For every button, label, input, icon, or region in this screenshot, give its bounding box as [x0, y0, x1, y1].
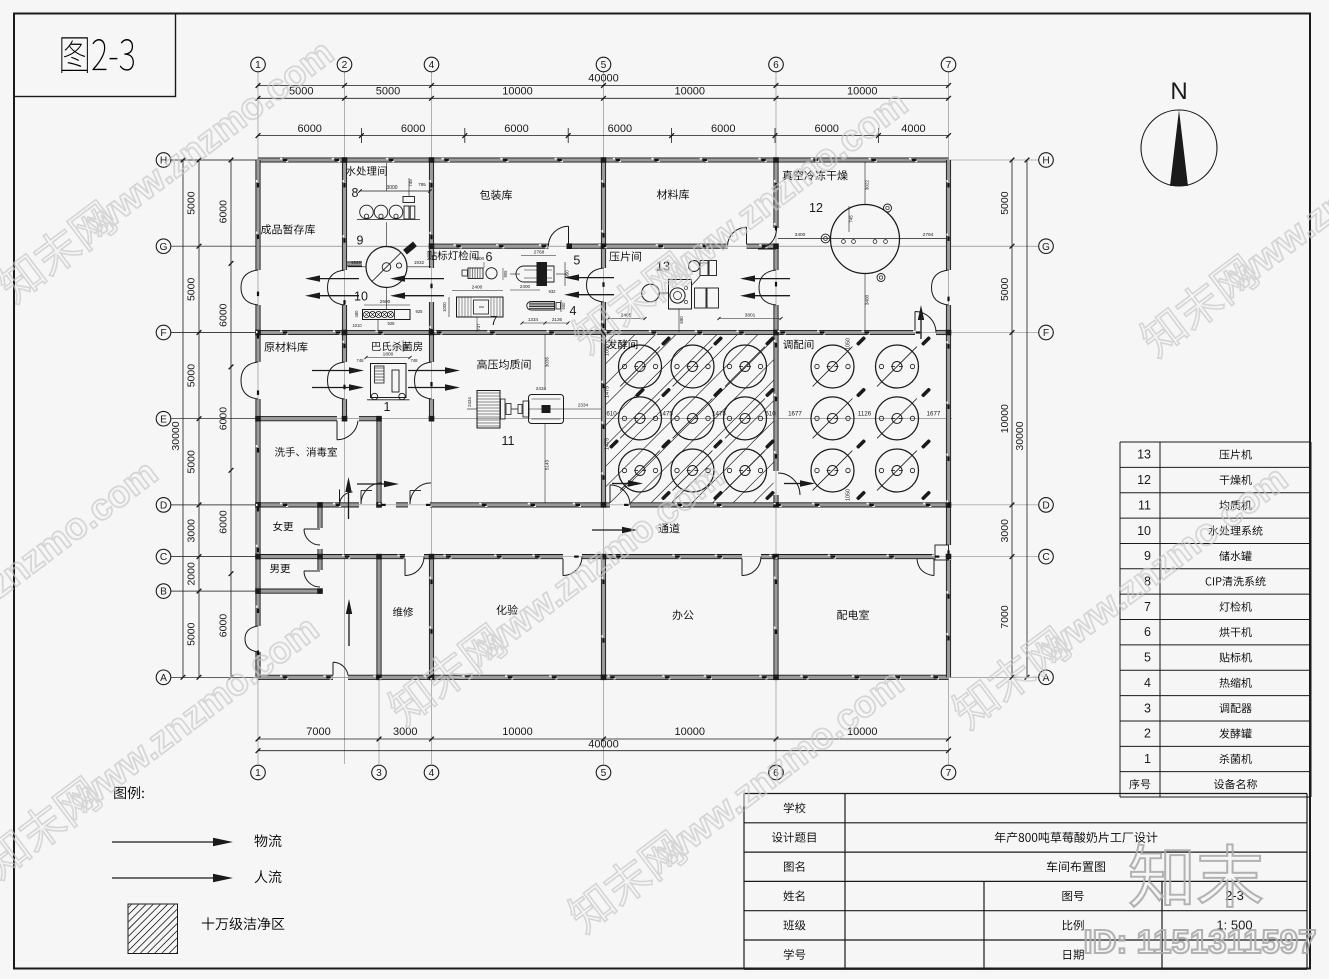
wall axis 6 vertical [774, 160, 778, 228]
svg-text:11: 11 [1138, 498, 1151, 512]
svg-text:2794: 2794 [923, 232, 934, 238]
room labels [261, 224, 271, 234]
svg-text:5000: 5000 [186, 278, 198, 302]
wall axis 6 vertical lower (办公/配电室) [774, 557, 778, 678]
svg-text:1: 1 [255, 60, 261, 71]
svg-text:6000: 6000 [401, 123, 425, 135]
svg-text:3400: 3400 [795, 232, 806, 238]
svg-text:1000: 1000 [442, 302, 447, 312]
right axis letter circles [1039, 153, 1054, 168]
svg-text:795: 795 [418, 182, 426, 187]
wall axis C (corridor bottom) [320, 555, 405, 559]
svg-text:2334: 2334 [578, 403, 589, 408]
svg-text:7: 7 [946, 60, 952, 71]
svg-text:5000: 5000 [999, 191, 1011, 215]
svg-text:6000: 6000 [711, 123, 735, 135]
svg-text:H: H [1042, 156, 1049, 167]
svg-text:4: 4 [1144, 676, 1151, 690]
svg-text:12: 12 [809, 201, 823, 215]
svg-text:737: 737 [476, 323, 481, 331]
svg-text:2: 2 [1144, 727, 1151, 741]
svg-text:1126: 1126 [858, 410, 872, 417]
svg-text:5143: 5143 [545, 459, 550, 470]
svg-text:3: 3 [376, 768, 382, 779]
svg-text:F: F [1043, 328, 1049, 339]
svg-text:30000: 30000 [170, 421, 182, 450]
svg-text:6000: 6000 [218, 614, 230, 638]
svg-text:6: 6 [1144, 625, 1151, 639]
svg-text:D: D [160, 501, 167, 512]
svg-text:5000: 5000 [999, 278, 1011, 302]
svg-text:1475: 1475 [605, 386, 611, 398]
left axis letter circles [156, 153, 171, 168]
wall 女更 right (x=320) [318, 505, 322, 528]
svg-text:748: 748 [411, 358, 419, 363]
知末 logo watermark [1130, 844, 1262, 907]
wall axis B (男更 bottom) [258, 589, 320, 593]
svg-text:6000: 6000 [218, 200, 230, 224]
wall junction blocks [342, 157, 348, 163]
left dimension lines [182, 160, 184, 677]
wall axis D (corridor top) [258, 503, 359, 507]
svg-text:C: C [1042, 552, 1049, 563]
svg-text:3000: 3000 [386, 185, 397, 191]
svg-text:1475: 1475 [659, 410, 673, 417]
svg-text:3: 3 [1144, 701, 1151, 715]
flow arrows [320, 278, 359, 280]
svg-text:12: 12 [1137, 473, 1151, 487]
svg-text:1677: 1677 [788, 410, 802, 417]
svg-text:932: 932 [549, 289, 557, 294]
svg-text:6000: 6000 [504, 123, 528, 135]
svg-text:4000: 4000 [901, 123, 925, 135]
svg-text:1050: 1050 [846, 489, 852, 501]
svg-text:7000: 7000 [999, 605, 1011, 629]
wall axis 2 vertical [342, 160, 346, 270]
svg-text:600: 600 [561, 302, 566, 310]
svg-text:4: 4 [429, 768, 435, 779]
top dimension lines [258, 85, 949, 87]
svg-text:4: 4 [429, 60, 435, 71]
svg-text:2400: 2400 [520, 284, 531, 289]
svg-text:748: 748 [357, 358, 365, 363]
svg-text:1475: 1475 [605, 438, 611, 450]
svg-text:10000: 10000 [674, 726, 705, 738]
svg-text:E: E [160, 414, 167, 425]
svg-text:G: G [1042, 242, 1050, 253]
svg-text:40000: 40000 [588, 73, 619, 85]
svg-text:F: F [160, 328, 166, 339]
svg-text:1932: 1932 [414, 260, 425, 265]
svg-text:3000: 3000 [999, 519, 1011, 543]
svg-text:A: A [160, 673, 167, 684]
svg-text:N: N [1170, 78, 1187, 105]
svg-text:950: 950 [565, 270, 570, 278]
svg-text:1334: 1334 [528, 317, 539, 322]
svg-text:5000: 5000 [186, 191, 198, 215]
svg-text:6000: 6000 [297, 123, 321, 135]
svg-text:925: 925 [416, 309, 424, 314]
svg-text:7: 7 [946, 768, 952, 779]
svg-text:480: 480 [354, 310, 359, 318]
svg-text:G: G [160, 242, 168, 253]
exterior wall right (axis 7) [946, 160, 950, 270]
bottom axis circles [251, 765, 266, 780]
svg-text:5000: 5000 [376, 86, 400, 98]
svg-text:745: 745 [849, 215, 854, 223]
svg-text:5: 5 [601, 60, 607, 71]
figure label box 图2-3 [14, 14, 176, 97]
svg-text:1: 1 [1144, 752, 1151, 766]
svg-text:3000: 3000 [186, 519, 198, 543]
wall axis 5 vertical [601, 160, 605, 268]
svg-text:928: 928 [388, 321, 396, 326]
svg-text:5000: 5000 [186, 364, 198, 388]
svg-text:745: 745 [408, 179, 413, 187]
svg-text:11: 11 [502, 434, 515, 448]
svg-text:2400: 2400 [472, 285, 483, 291]
svg-text:5: 5 [1144, 651, 1151, 665]
svg-text:690: 690 [679, 316, 684, 324]
wall axis 5 vertical lower (化验/办公) [601, 557, 605, 678]
svg-text:D: D [1042, 501, 1049, 512]
svg-text:10: 10 [1137, 524, 1151, 538]
bottom dimension lines [258, 738, 949, 740]
wall axis 3 vertical (洗手室 right) [377, 419, 381, 505]
svg-text:5: 5 [573, 254, 580, 268]
legend 图例 [114, 787, 126, 799]
svg-text:C: C [160, 552, 167, 563]
svg-text:3400: 3400 [865, 294, 870, 305]
svg-text:30000: 30000 [1014, 421, 1026, 450]
svg-text:10: 10 [354, 290, 368, 304]
svg-text:3801: 3801 [745, 313, 756, 319]
svg-text:10000: 10000 [502, 726, 533, 738]
svg-text:6000: 6000 [218, 510, 230, 534]
svg-text:9: 9 [357, 234, 364, 248]
svg-text:2000: 2000 [186, 562, 198, 586]
svg-text:610: 610 [765, 410, 776, 417]
svg-text:6: 6 [486, 250, 493, 264]
调配器 tanks (调配间 3) [811, 345, 854, 388]
diagonal watermarks [0, 31, 341, 308]
svg-text:1920: 1920 [351, 260, 362, 265]
svg-text:1475: 1475 [712, 410, 726, 417]
svg-text:5000: 5000 [186, 450, 198, 474]
svg-text:B: B [160, 587, 167, 598]
svg-text:5000: 5000 [186, 622, 198, 646]
svg-text:2: 2 [342, 60, 348, 71]
svg-text:1050: 1050 [846, 338, 852, 350]
wall axis 4 vertical lower (维修/化验) [429, 557, 433, 678]
axis grid centerlines [257, 72, 259, 764]
svg-text:13: 13 [1137, 448, 1151, 462]
svg-text:5: 5 [601, 768, 607, 779]
svg-text:2434: 2434 [467, 397, 472, 407]
wall below 水处理间 partial [345, 262, 363, 266]
svg-text:1: 1 [255, 768, 261, 779]
svg-text:7000: 7000 [306, 726, 330, 738]
wall axis 4 vertical [429, 160, 433, 268]
svg-text:6: 6 [773, 60, 779, 71]
svg-text:2768: 2768 [534, 250, 545, 256]
door swings [241, 270, 258, 288]
svg-text:10000: 10000 [674, 86, 705, 98]
svg-text:10000: 10000 [502, 86, 533, 98]
发酵罐 tanks (发酵间 2) [619, 345, 662, 388]
exterior wall left (axis 1) [256, 160, 260, 270]
svg-text:40000: 40000 [588, 739, 619, 751]
title block table [744, 793, 1307, 795]
wall axis E (below 原材料库) [258, 417, 337, 421]
right dimension lines [1011, 160, 1013, 677]
svg-text:3022: 3022 [865, 179, 870, 190]
top axis circles [251, 57, 266, 72]
wall 女更/男更 divider [258, 555, 320, 559]
svg-text:1: 1 [384, 400, 391, 414]
svg-text:905: 905 [503, 270, 508, 278]
svg-text:1800: 1800 [383, 352, 394, 358]
svg-text:610: 610 [606, 410, 617, 417]
hatch thick dashes [661, 336, 671, 346]
svg-text:3035: 3035 [545, 356, 550, 367]
wall axis G (below 包装库/材料库) [432, 244, 549, 248]
svg-text:6000: 6000 [608, 123, 632, 135]
exterior wall top (axis H) [258, 158, 949, 162]
figure label text [61, 37, 88, 73]
svg-text:8: 8 [352, 186, 359, 200]
svg-text:10000: 10000 [999, 404, 1011, 433]
wall axis 3 vertical (维修 left) [377, 557, 381, 678]
exterior wall bottom (axis A) [258, 675, 333, 679]
svg-text:2136: 2136 [552, 317, 563, 322]
svg-text:6000: 6000 [218, 303, 230, 327]
equipment list table [1120, 441, 1311, 443]
svg-text:1677: 1677 [927, 410, 941, 417]
svg-text:2500: 2500 [380, 299, 391, 305]
svg-text:ID: 1151311597: ID: 1151311597 [1083, 923, 1316, 960]
svg-text:4: 4 [570, 304, 577, 318]
wall axis F [258, 330, 915, 334]
svg-text:1010: 1010 [352, 323, 362, 328]
wall texture dashes [280, 158, 282, 160]
